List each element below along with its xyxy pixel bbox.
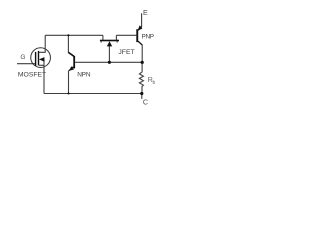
jfet source lead bbox=[115, 35, 117, 40]
jfet channel bar bbox=[100, 40, 119, 42]
svg-text:C: C bbox=[143, 97, 148, 106]
svg-text:NPN: NPN bbox=[77, 72, 91, 79]
mosfet Q1 circle bbox=[31, 48, 51, 68]
npn emitter diagonal bold bbox=[69, 67, 74, 72]
npn collector diagonal bold bbox=[68, 52, 75, 57]
svg-text:JFET: JFET bbox=[118, 49, 134, 56]
pnp Q3 base bar bbox=[136, 29, 138, 42]
mosfet body arrow bbox=[39, 57, 44, 62]
mosfet gate plate bbox=[35, 52, 37, 66]
junction dot JFET gate / base row bbox=[108, 61, 111, 64]
resistor Rb zigzag bbox=[139, 62, 143, 93]
junction dot PNP collector / resistor bbox=[141, 61, 144, 64]
mosfet drain lead bbox=[39, 35, 45, 52]
svg-text:MOSFET: MOSFET bbox=[18, 72, 46, 79]
junction dot NPN emitter at bottom rail bbox=[67, 92, 69, 94]
jfet gate arrow bbox=[107, 41, 112, 46]
wire C terminal stub bbox=[141, 94, 143, 99]
mosfet body lead bbox=[43, 59, 45, 65]
wire NPN base row bbox=[75, 61, 142, 63]
mosfet source lead bbox=[39, 65, 44, 93]
pnp emitter diagonal bold bbox=[138, 26, 142, 30]
mosfet channel bar bbox=[38, 51, 40, 66]
wire bottom rail bbox=[44, 93, 142, 95]
wire top rail left bbox=[45, 34, 103, 36]
wire top rail right to PNP base bbox=[116, 34, 136, 36]
npn emitter diagonal bbox=[72, 67, 75, 69]
wire PNP collector drop bbox=[138, 41, 142, 62]
jfet drain lead bbox=[102, 35, 104, 40]
wire PNP emitter to E bbox=[138, 13, 141, 30]
svg-text:E: E bbox=[143, 8, 148, 17]
npn emitter arrow bbox=[69, 66, 74, 71]
jfet channel end tick right bbox=[117, 41, 118, 42]
svg-text:b: b bbox=[153, 80, 156, 86]
wire NPN emitter drop bbox=[68, 70, 70, 93]
wire G gate lead bbox=[17, 63, 35, 65]
junction dot NPN collector at rail bbox=[67, 34, 69, 36]
junction dot bottom rail / C bbox=[140, 92, 143, 95]
svg-text:G: G bbox=[20, 54, 25, 61]
svg-text:PNP: PNP bbox=[142, 33, 154, 40]
npn Q2 base bar bbox=[73, 56, 75, 68]
jfet channel end tick left bbox=[101, 41, 102, 42]
wire JFET gate drop bbox=[108, 45, 110, 62]
wire NPN collector bbox=[68, 35, 74, 56]
pnp emitter arrow bbox=[138, 25, 143, 30]
pnp collector diagonal bold bbox=[138, 41, 143, 46]
